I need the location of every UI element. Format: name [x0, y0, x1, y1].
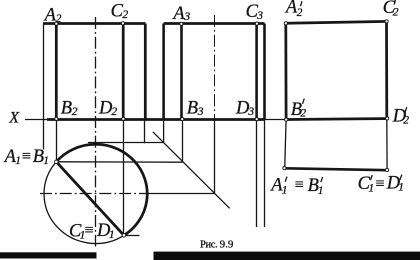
svg-text:2: 2: [393, 6, 399, 18]
profile view left contour: [162, 24, 165, 120]
axis X thin left segment: [25, 119, 47, 121]
transfer line B3 down to 45 line: [182, 119, 184, 162]
svg-text:3: 3: [197, 106, 204, 118]
square plan chord A1B1-C1D1 (thick): [56, 162, 124, 236]
transfer vertical up to profile left contour: [163, 119, 165, 143]
primed square top edge A2'C2': [286, 21, 387, 23]
svg-text:2: 2: [56, 13, 62, 25]
svg-text:2: 2: [122, 9, 128, 21]
point A3: [180, 22, 183, 25]
circle of plan view: thin remaining arc: [44, 162, 124, 244]
svg-text:1: 1: [282, 185, 288, 197]
point D2': [386, 117, 389, 120]
svg-text:1: 1: [368, 182, 374, 194]
primed square bottom edge B2'D2': [286, 117, 387, 121]
projection line D2 to C1D1: [123, 119, 125, 235]
bottom black bar left: [0, 252, 97, 258]
point B2': [285, 118, 288, 121]
svg-text:X: X: [8, 110, 20, 127]
right contour extension below axis: [264, 119, 266, 227]
centerline of view 2 (dash-dot): [214, 15, 216, 119]
svg-text:1: 1: [109, 229, 115, 241]
point C3: [255, 22, 258, 25]
svg-text:2: 2: [403, 114, 409, 126]
svg-text:1: 1: [398, 182, 404, 194]
point C1=D1: [122, 234, 126, 238]
lower rectangle left edge (thin): [285, 120, 286, 169]
front view left contour (thin): [43, 24, 45, 150]
45 degree transfer line: [153, 132, 230, 209]
svg-text:B: B: [61, 98, 72, 118]
transfer horizontal from A1B1 to 45 line: [56, 161, 182, 163]
edge A2B2: [55, 24, 58, 120]
point C1'=D1': [386, 168, 389, 171]
svg-text:A: A: [171, 4, 185, 24]
horizontal centerline of circle (dash-dot): [40, 193, 151, 195]
primed square right edge C2'D2': [385, 21, 388, 118]
svg-text:≡: ≡: [294, 177, 305, 194]
edge C2D2: [122, 24, 125, 120]
svg-text:2: 2: [297, 7, 303, 19]
svg-text:3: 3: [183, 11, 190, 23]
svg-text:3: 3: [256, 10, 263, 22]
svg-text:≡: ≡: [84, 222, 95, 239]
projection line right contour to circle top level: [144, 119, 146, 143]
lower rectangle bottom edge A1'B1'-C1'D1' (thick): [285, 168, 387, 170]
transfer line C3D3 below axis: [256, 119, 258, 227]
svg-text:≡: ≡: [21, 148, 32, 165]
point C2': [385, 20, 388, 23]
short tail right of C1D1: [124, 235, 140, 237]
svg-text:9.9: 9.9: [220, 239, 234, 251]
point D2: [122, 117, 125, 120]
primed square left edge A2'B2': [284, 23, 287, 119]
projection line B2 to A1B1: [56, 119, 58, 162]
point B2: [55, 117, 58, 120]
front view right contour: [144, 24, 147, 120]
svg-text:2: 2: [72, 106, 78, 118]
svg-text:A: A: [43, 6, 57, 26]
svg-text:3: 3: [247, 106, 254, 118]
circle of plan view: thick arc A1B1 over top to C1D1: [56, 144, 147, 235]
point B3: [181, 118, 184, 121]
point A1'=B1': [283, 167, 286, 170]
transfer line centerline down to 45 line: [214, 119, 216, 194]
point D3: [255, 118, 258, 121]
profile view top edge: [164, 22, 265, 25]
point C2: [121, 22, 124, 25]
svg-text:2: 2: [111, 106, 117, 118]
axis X thin segment before primed square: [265, 119, 287, 121]
transfer horizontal from circle top to 45 line: [88, 142, 164, 144]
svg-text:≡: ≡: [374, 175, 385, 192]
edge A3B3: [180, 24, 183, 120]
svg-text:1: 1: [318, 185, 324, 197]
lower rectangle right edge (thin): [386, 119, 388, 171]
svg-text:Рис.: Рис.: [200, 240, 217, 251]
point A2': [284, 22, 287, 25]
profile view right contour: [263, 24, 266, 120]
point A2: [55, 22, 58, 25]
svg-text:B: B: [187, 98, 198, 118]
bottom black bar right: [154, 252, 420, 260]
svg-text:2: 2: [300, 108, 306, 120]
centerline of view 1 and circle (dash-dot): [95, 17, 97, 247]
axis X thick segment under views 1 and 2: [47, 118, 265, 121]
point A1=B1: [55, 160, 59, 164]
svg-text:1: 1: [43, 155, 49, 167]
transfer horizontal from circle centerline to 45 line: [151, 193, 215, 195]
edge C3D3: [255, 24, 258, 120]
front view top edge: [43, 22, 145, 25]
